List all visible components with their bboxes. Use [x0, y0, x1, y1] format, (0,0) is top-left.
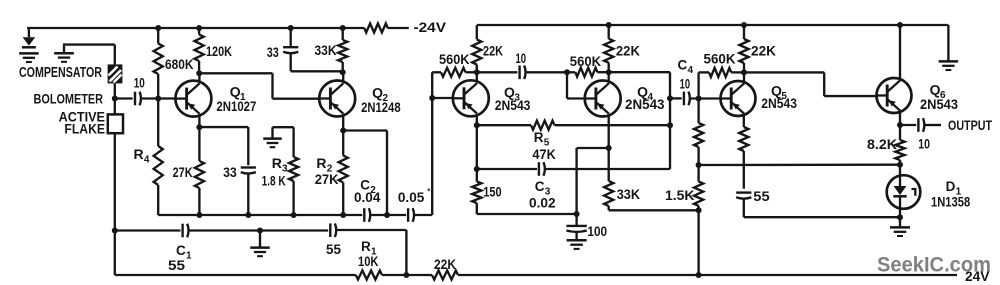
label 1N1358	[931, 195, 971, 210]
wire Q1 collector to Q2 base	[199, 73, 319, 98]
capacitor 33 (Q2 collector)	[283, 28, 343, 71]
label 22K (Q4)	[616, 43, 640, 58]
node R1/22K junction	[403, 272, 409, 278]
wire C3 run	[477, 168, 670, 170]
label R5	[534, 130, 550, 148]
wire Q3 collector	[476, 72, 478, 81]
wire compensator to node	[114, 83, 116, 114]
wire Q1 emitter	[198, 115, 200, 127]
wire rail to ground (right end)	[947, 25, 949, 61]
resistor (unlabeled, -24V feed)	[364, 24, 387, 33]
wire Q2 emitter	[342, 115, 344, 130]
wire Q2 emitter jog	[343, 131, 387, 216]
resistor 120K	[195, 28, 204, 73]
svg-text:33: 33	[267, 45, 279, 60]
node rail/33K	[340, 25, 346, 31]
wire Q3 collector to cap 10	[477, 71, 518, 73]
svg-text:Q: Q	[930, 82, 941, 98]
label 10 (output)	[918, 136, 930, 151]
resistor 1.5K	[694, 165, 703, 275]
wire R5 run	[477, 124, 670, 126]
svg-text:47K: 47K	[532, 147, 556, 162]
node C2/0.05 junction	[384, 212, 390, 218]
wire ground stub (C1 bus)	[259, 231, 261, 248]
svg-text:2N1027: 2N1027	[216, 99, 256, 114]
label C2	[360, 178, 376, 196]
capacitor C4 10	[684, 92, 690, 106]
label R2	[316, 155, 332, 174]
label Q3	[504, 84, 520, 103]
wire C1 to ground node	[189, 229, 328, 231]
wire Q5 collector to Q6 base	[744, 72, 877, 96]
label 55 (Q5)	[753, 189, 770, 204]
wire Q1 emitter to 33 cap	[199, 127, 248, 165]
label 100	[587, 224, 607, 239]
node 33cap bottom	[245, 212, 251, 218]
capacitor 55 (Q5)	[736, 193, 751, 218]
node emitter bus left	[696, 162, 702, 168]
svg-text:1N1358: 1N1358	[931, 195, 971, 210]
label R4	[134, 146, 150, 165]
label 0.05	[398, 190, 425, 205]
label BOLOMETER	[34, 91, 104, 106]
node Q1 emitter	[196, 124, 202, 130]
label Q6	[930, 82, 946, 101]
node bolometer junction	[112, 96, 118, 102]
node 100uF tap	[574, 211, 580, 217]
svg-text:55: 55	[753, 189, 770, 204]
resistor 8.2K	[895, 140, 904, 176]
wire 33K to 1.5K node	[609, 209, 699, 211]
node Q6 emitter/output	[897, 122, 903, 128]
node 8.2K/emitter bus	[897, 162, 903, 168]
ground (below diode)	[19, 53, 39, 62]
wire right rail	[477, 24, 949, 26]
svg-text:1.8 K: 1.8 K	[262, 174, 286, 189]
svg-text:10: 10	[918, 136, 930, 151]
label 33K (Q4)	[617, 187, 641, 202]
wire emitter bus	[699, 164, 900, 167]
label FLAKE	[64, 121, 105, 136]
node Q3 emitter/C3	[474, 166, 480, 172]
node Q4 base tee	[564, 69, 570, 75]
node rail/680K	[155, 25, 161, 31]
label Q5	[771, 83, 787, 102]
svg-text:R: R	[134, 146, 144, 162]
svg-text:24V: 24V	[965, 269, 990, 284]
wire C1 run	[115, 229, 181, 231]
wire C4 to Q5 base	[691, 97, 721, 99]
wire 150 to 100cap node	[477, 213, 577, 215]
svg-text:33: 33	[223, 165, 237, 180]
node D1/55 bus	[897, 214, 903, 220]
svg-text:22K: 22K	[434, 257, 456, 272]
ground (D1)	[890, 227, 910, 236]
svg-text:10K: 10K	[358, 254, 379, 269]
label 33 (Q2)	[267, 45, 279, 60]
transistor Q6 2N543	[877, 78, 912, 113]
node 1.5K to rail	[696, 272, 702, 278]
resistor 27K (Q1 emitter)	[195, 127, 204, 215]
svg-text:R: R	[316, 155, 326, 171]
node bolometer/C1	[112, 228, 118, 234]
transistor Q4 2N543	[585, 81, 621, 117]
svg-text:C: C	[678, 58, 688, 73]
resistor 560K (Q4 feedback)	[567, 68, 609, 77]
wire 0.05 to Q3 base riser	[431, 72, 433, 215]
wire bottom -24V rail	[115, 274, 957, 276]
wire ground to compensator	[63, 45, 115, 65]
label ACTIVE	[59, 110, 105, 125]
wire Q4 collector to C4 riser	[609, 72, 670, 169]
resistor R2 27K	[339, 131, 348, 216]
active flake (box)	[108, 114, 123, 133]
label 10 (input cap)	[134, 76, 145, 91]
wire ground to R3	[273, 127, 294, 138]
node rail/22K (Q4)	[606, 22, 612, 28]
capacitor C3 0.02	[539, 162, 545, 176]
node C1 ground tap	[257, 228, 263, 234]
label 47K	[532, 147, 556, 162]
wire Q1 collector	[198, 73, 200, 82]
node Q5 base divider	[696, 96, 702, 102]
node Q3 base tap	[429, 95, 435, 101]
wire top -24V rail	[27, 27, 409, 29]
label 22K (Q5)	[751, 44, 776, 59]
capacitor 0.05	[408, 208, 414, 222]
capacitor 55 (second)	[330, 223, 336, 237]
resistor 33K (Q2 collector)	[338, 28, 347, 72]
wire Q6 emitter	[899, 112, 901, 140]
wire Q3 emitter	[476, 115, 478, 181]
svg-text:FLAKE: FLAKE	[64, 121, 105, 136]
resistor R5 47K	[531, 121, 555, 130]
label 560K (Q4)	[570, 53, 601, 69]
label OUTPUT	[948, 118, 993, 133]
ground (100 cap)	[567, 240, 587, 249]
wire Q3 base	[432, 97, 453, 99]
svg-text:COMPENSATOR: COMPENSATOR	[19, 64, 102, 81]
ground (compensator top)	[54, 53, 74, 62]
label Q2	[372, 85, 388, 104]
diode stub	[28, 28, 30, 37]
resistor Q5 emitter	[739, 116, 748, 189]
wire D1 to ground	[899, 209, 901, 228]
label 1.5K	[665, 188, 695, 203]
svg-text:OUTPUT: OUTPUT	[948, 118, 993, 133]
label 33 (Q1 bypass)	[223, 165, 237, 180]
svg-text:560K: 560K	[704, 51, 736, 67]
node R3 bottom	[291, 212, 297, 218]
label 150	[483, 185, 501, 200]
node Q4 collector	[606, 69, 612, 75]
wire Q6 collector	[899, 25, 901, 79]
resistor 22K (Q3 collector)	[472, 25, 481, 72]
svg-text:55: 55	[168, 258, 186, 273]
label 2N1248	[361, 100, 401, 115]
wire Q2 collector	[342, 72, 344, 81]
label C4	[678, 58, 694, 76]
wire Q4 collector	[608, 72, 610, 82]
svg-text:120K: 120K	[206, 43, 232, 59]
wire Q4 emitter	[608, 116, 610, 181]
svg-text:R: R	[272, 155, 282, 171]
node R2 bottom	[340, 212, 346, 218]
label 55 (second)	[326, 242, 341, 257]
resistor 560K (Q3 feedback)	[432, 68, 477, 77]
wire Q5 collector	[743, 72, 745, 82]
node Q3 emitter/R5	[474, 122, 480, 128]
ground (C1 bus)	[250, 248, 270, 257]
label C3	[535, 179, 551, 197]
svg-text:D: D	[946, 179, 956, 194]
svg-text:2N1248: 2N1248	[361, 100, 401, 115]
transistor Q1 2N1027	[175, 81, 211, 117]
ground (right rail)	[939, 61, 959, 70]
transistor Q3 2N543	[453, 80, 489, 116]
svg-text:C: C	[535, 179, 545, 194]
svg-text:1: 1	[186, 250, 192, 261]
svg-text:R: R	[534, 130, 544, 145]
label D1	[946, 179, 962, 197]
svg-text:55: 55	[326, 242, 341, 257]
svg-text:0.04: 0.04	[354, 190, 381, 205]
node C4 tap	[667, 95, 673, 101]
resistor 680K	[154, 28, 163, 99]
node rail/22K (Q5)	[741, 22, 747, 28]
svg-text:C: C	[176, 243, 186, 258]
wire C-10 to Q1 base	[142, 97, 176, 99]
resistor R3 1.8K	[289, 127, 298, 215]
node R5 tap	[667, 122, 673, 128]
node Q2 collector	[340, 69, 346, 75]
svg-text:22K: 22K	[483, 44, 503, 59]
label C1	[176, 243, 192, 261]
label 1.8 K	[262, 174, 286, 189]
node rail/33cap	[288, 25, 294, 31]
label 10K	[358, 254, 379, 269]
transistor Q2 2N1248	[319, 81, 355, 117]
node 27K bottom	[196, 212, 202, 218]
speck (scan artifact)	[427, 188, 430, 191]
label 55 (C1)	[168, 258, 186, 273]
svg-text:BOLOMETER: BOLOMETER	[34, 91, 104, 106]
label Q4	[637, 84, 653, 103]
svg-text:27K: 27K	[315, 172, 339, 187]
transistor Q5 2N543	[721, 81, 756, 116]
label R1	[361, 239, 377, 257]
wire Q4 emitter to 100 node	[577, 148, 609, 214]
node Q1 collector	[196, 70, 202, 76]
label 2N1027	[216, 99, 256, 114]
svg-text:10: 10	[680, 77, 691, 92]
diode (compensator return)	[22, 37, 36, 47]
capacitor C2 0.04	[364, 208, 370, 222]
wire cap 10 to Q4 base	[526, 72, 585, 98]
svg-text:4: 4	[144, 154, 150, 165]
label 27K (Q1)	[173, 165, 193, 180]
svg-text:560K: 560K	[439, 51, 470, 67]
resistor (Q5 base to emitter node)	[694, 99, 703, 166]
svg-text:33K: 33K	[617, 187, 641, 202]
wire cap to OUTPUT	[925, 124, 941, 126]
node 33K/1.5K junction	[696, 207, 702, 213]
label R3	[272, 155, 288, 174]
svg-text:4: 4	[687, 65, 693, 76]
node Q2 emitter	[340, 128, 346, 134]
wire 55 to bottom rail	[337, 230, 407, 275]
capacitor 100 to ground	[566, 214, 586, 240]
label 24V (bottom right)	[965, 269, 990, 284]
capacitor 10 (Q3-Q4)	[520, 66, 526, 80]
svg-text:560K: 560K	[570, 53, 601, 69]
wire output coupling	[900, 124, 916, 126]
label 680K	[165, 56, 194, 72]
svg-text:22K: 22K	[616, 43, 640, 58]
resistor R4	[154, 99, 163, 216]
node Q4 emitter jog	[606, 145, 612, 151]
capacitor 10 (output)	[918, 118, 924, 132]
label COMPENSATOR	[19, 64, 102, 81]
label 0.02	[529, 196, 556, 211]
watermark SeekIC.com	[877, 254, 991, 277]
resistor 560K (Q5 feedback)	[699, 68, 744, 99]
label -24V	[414, 19, 447, 35]
resistor 22K (Q4 collector)	[604, 25, 613, 72]
label 27K (R2)	[315, 172, 339, 187]
svg-text:2N543: 2N543	[920, 97, 958, 112]
svg-text:100: 100	[587, 224, 607, 239]
label 560K (Q3)	[439, 51, 470, 67]
svg-text:0.05: 0.05	[398, 190, 425, 205]
resistor 150	[472, 182, 481, 215]
svg-text:680K: 680K	[165, 56, 194, 72]
wire 55 to D1 ground node	[744, 216, 900, 218]
label Q1	[230, 84, 246, 103]
svg-text:Q: Q	[230, 84, 241, 100]
label 10 (C4)	[680, 77, 691, 92]
capacitor C1 55	[183, 224, 189, 238]
svg-text:10: 10	[134, 76, 145, 91]
svg-text:33K: 33K	[315, 43, 337, 58]
label 2N543 (Q5)	[761, 96, 797, 111]
svg-text:R: R	[361, 239, 371, 254]
diode D1 1N1358	[887, 175, 921, 209]
wire C4 left	[670, 97, 682, 99]
node rail/120K	[196, 25, 202, 31]
resistor 22K (Q5 collector)	[739, 25, 748, 72]
resistor R1 10K	[356, 271, 382, 280]
label 8.2K	[867, 137, 897, 152]
wire bias bus	[158, 214, 432, 216]
svg-text:-24V: -24V	[414, 19, 447, 35]
node rail/Q6 collector	[897, 22, 903, 28]
svg-text:0.02: 0.02	[529, 196, 556, 211]
svg-text:1.5K: 1.5K	[665, 188, 695, 203]
label 10 (Q3-Q4)	[516, 51, 527, 66]
label 2N543 (Q3)	[495, 98, 531, 113]
svg-text:2N543: 2N543	[761, 96, 797, 111]
svg-text:10: 10	[516, 51, 527, 66]
label 2N543 (Q6)	[920, 97, 958, 112]
svg-text:150: 150	[483, 185, 501, 200]
label 0.04	[354, 190, 381, 205]
label 2N543 (Q4)	[625, 97, 665, 112]
label 33K (Q2)	[315, 43, 337, 58]
svg-text:27K: 27K	[173, 165, 193, 180]
svg-text:22K: 22K	[751, 44, 776, 59]
capacitor 10 (input)	[135, 92, 141, 106]
label 22K (bottom)	[434, 257, 456, 272]
label 120K	[206, 43, 232, 59]
resistor 22K (bottom)	[432, 271, 458, 280]
svg-text:2N543: 2N543	[495, 98, 531, 113]
ground (R3 top)	[263, 139, 282, 148]
svg-text:8.2K: 8.2K	[867, 137, 897, 152]
wire active flake down	[114, 133, 116, 275]
label 22K (Q3)	[483, 44, 503, 59]
resistor 33K (Q4 emitter)	[604, 181, 613, 210]
node base Q1 / 680K	[155, 96, 161, 102]
compensator flake (hatched box)	[108, 64, 123, 83]
label 560K (Q5)	[704, 51, 736, 67]
node Q5 collector	[741, 69, 747, 75]
svg-text:2N543: 2N543	[625, 97, 665, 112]
capacitor 33 (Q1 emitter bypass)	[241, 168, 256, 216]
svg-text:Q: Q	[372, 85, 383, 101]
node Q3 collector	[474, 69, 480, 75]
wire node to C-10	[115, 97, 133, 99]
